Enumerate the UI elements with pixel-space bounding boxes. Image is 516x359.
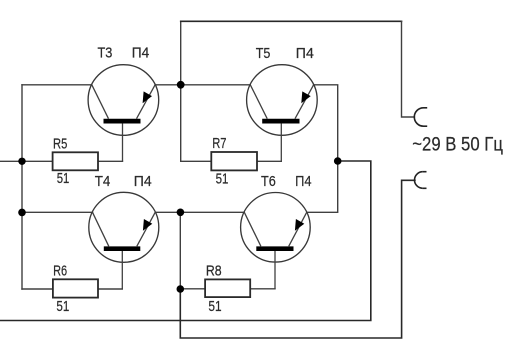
wire: node B down to node C	[179, 212, 181, 289]
transistor T3	[88, 65, 159, 162]
AC source lower socket terminal	[415, 172, 427, 189]
transistor T4	[89, 192, 159, 289]
wire: left rail to R6	[22, 288, 53, 290]
svg-text:Т6: Т6	[261, 173, 276, 190]
transistor T5	[247, 65, 318, 162]
node: left rail / T4 row junction	[18, 209, 26, 217]
resistor R5	[53, 152, 98, 170]
wire: left rail to T3 collector	[22, 84, 92, 86]
resistor R8	[205, 279, 250, 297]
wire: left rail vertical	[21, 85, 23, 289]
svg-text:~29 В 50 Гц: ~29 В 50 Гц	[412, 135, 503, 156]
wire: right vertical to upper AC terminal	[402, 21, 415, 117]
wire: R5 to T3 base	[98, 160, 123, 162]
wire: node C down to outer bottom rail to lower AC terminal	[180, 180, 415, 338]
wire: T4 emitter row through node B to T6 collector	[155, 211, 244, 213]
svg-text:Т3: Т3	[98, 45, 113, 62]
svg-text:51: 51	[216, 170, 229, 187]
node: left rail / R5 junction	[18, 158, 25, 165]
svg-text:Т4: Т4	[95, 173, 111, 190]
wire: node A down then right to R7	[181, 85, 212, 162]
svg-text:П4: П4	[296, 45, 314, 62]
wire: node C to R8	[180, 288, 205, 290]
svg-text:R7: R7	[212, 135, 226, 152]
wire: T3 emitter to node A to T5 collector	[155, 84, 250, 86]
node A: T3 emitter / T5 collector / top rail / R7 feed	[177, 81, 185, 89]
wire: node D down and left to T6 emitter	[307, 161, 338, 212]
wire: top rail	[181, 20, 402, 22]
wire: left stub to R5 (node at left edge)	[0, 160, 53, 162]
svg-text:R5: R5	[53, 135, 67, 152]
svg-text:51: 51	[57, 170, 70, 187]
resistor R7	[211, 152, 257, 170]
svg-text:П4: П4	[295, 173, 311, 190]
wire: T5 emitter right and down to node D	[314, 85, 338, 161]
svg-text:Т5: Т5	[256, 45, 271, 62]
node B: T4 emitter / T6 collector row	[177, 209, 185, 217]
wire: node D right, down, inner bottom rail	[0, 161, 371, 321]
svg-text:R8: R8	[206, 262, 222, 279]
wire: R8 to T6 base	[250, 288, 275, 290]
wire: left rail to T4 collector	[22, 211, 93, 213]
node D: T5 emitter / T6 emitter / inner rail	[334, 157, 342, 165]
wire: R6 to T4 base	[98, 288, 122, 290]
AC source upper socket terminal	[414, 108, 427, 126]
svg-text:R6: R6	[53, 262, 67, 279]
svg-text:П4: П4	[132, 45, 150, 62]
resistor R6	[53, 279, 98, 297]
wire: R7 to T5 base	[257, 160, 281, 162]
svg-text:51: 51	[208, 298, 221, 315]
wire: node A up to top rail	[180, 21, 182, 85]
svg-text:П4: П4	[134, 173, 152, 190]
transistor T6	[241, 193, 311, 289]
svg-text:51: 51	[56, 298, 69, 315]
node C: R8 feed / bottom rail	[177, 285, 185, 293]
